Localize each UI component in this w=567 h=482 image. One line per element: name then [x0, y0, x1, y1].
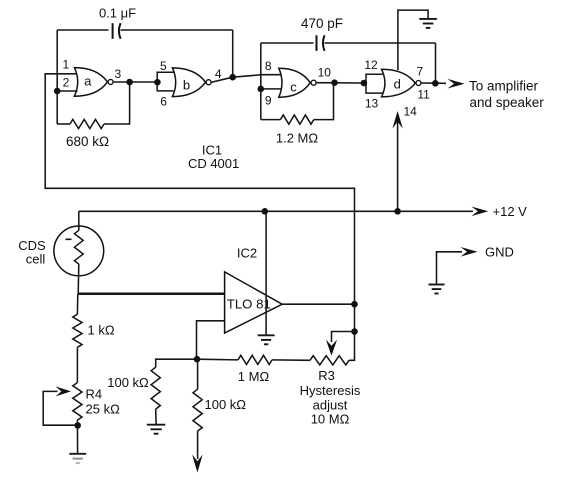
svg-text:680 kΩ: 680 kΩ — [66, 134, 109, 149]
wire: divider top lead — [76, 294, 78, 314]
arrow: to IC1 pin 14 — [392, 111, 402, 129]
wire: IC2 supply pins vertical — [265, 211, 267, 335]
junction: pin 10 node — [331, 79, 338, 86]
arrow: 100k to external connection — [192, 455, 203, 473]
svg-text:1.2 MΩ: 1.2 MΩ — [276, 130, 319, 145]
svg-text:470 pF: 470 pF — [301, 16, 343, 31]
resistor 1 MOhm — [238, 355, 272, 364]
ground: IC1 VSS — [419, 19, 437, 28]
svg-text:8: 8 — [265, 59, 272, 73]
wire: 680k left lead — [57, 123, 70, 125]
wire: R3 wiper — [332, 332, 355, 343]
wire: divider node to 1M left lead — [197, 358, 238, 361]
junction: +12V / pin 14 — [394, 208, 401, 215]
wire: pin 9 stub — [261, 88, 282, 90]
wire: 100k lower lead — [197, 431, 199, 459]
arrow: GND — [461, 247, 478, 257]
arrow: R4 wiper — [56, 386, 72, 396]
svg-text:and speaker: and speaker — [470, 95, 545, 110]
svg-text:b: b — [183, 78, 190, 93]
junction: IC2 output node — [351, 301, 358, 308]
wire: 1.2M right lead up to pin 10 — [314, 83, 334, 120]
svg-text:14: 14 — [404, 105, 418, 119]
svg-text:cell: cell — [26, 252, 46, 267]
wire: comparator output feedback to gate a pin 1 — [45, 74, 354, 304]
capacitor C2 470 pF — [317, 35, 325, 51]
svg-text:10: 10 — [318, 66, 332, 80]
wire: IC2 inverting input to divider node — [197, 321, 225, 359]
wire: CDS bottom lead — [77, 264, 80, 294]
svg-text:1 kΩ: 1 kΩ — [88, 323, 115, 338]
resistor 680 kOhm — [70, 119, 104, 128]
resistor 1.2 MOhm — [280, 115, 313, 124]
svg-text:100 kΩ: 100 kΩ — [205, 397, 247, 412]
wire: pin 2 stub — [57, 90, 77, 92]
ground: below 100k — [147, 425, 166, 434]
wire: 0.1uF loop top left segment — [57, 29, 108, 31]
svg-text:7: 7 — [416, 64, 423, 78]
wire: 1M right lead to R3 — [272, 359, 310, 361]
svg-text:10 MΩ: 10 MΩ — [311, 411, 350, 426]
wire: gate d input bracket pins 12/13 — [366, 74, 383, 93]
svg-text:9: 9 — [265, 93, 272, 107]
svg-text:To amplifier: To amplifier — [469, 78, 539, 93]
NOR gate c (IC1-c) — [279, 68, 310, 97]
wire: gate c output pin 10 to gate d input — [316, 82, 364, 84]
wire: R4 wiper return — [43, 391, 77, 425]
wire: GND symbol stub — [437, 252, 463, 285]
junction: pin 4 node (C1 right) — [229, 74, 236, 81]
wire: C1 right vertical to pin 4 node — [232, 30, 234, 77]
wire: IC2 output — [282, 303, 354, 305]
wire: IC1 pin 7 VSS to ground — [398, 10, 428, 70]
NOR gate b (IC1-b) — [172, 68, 205, 97]
svg-text:12: 12 — [364, 58, 378, 72]
svg-text:3: 3 — [115, 67, 122, 81]
potentiometer R3 10 MOhm body — [310, 356, 349, 365]
ground: IC2 V- pin — [258, 335, 275, 344]
NOR gate d (IC1-d) — [382, 69, 416, 97]
svg-text:1 MΩ: 1 MΩ — [238, 369, 270, 384]
svg-text:d: d — [394, 76, 401, 91]
gate c output bubble — [311, 80, 316, 85]
junction: +12V / IC2 supply — [262, 208, 269, 215]
junction: R4 wiper/bottom node — [74, 422, 81, 429]
svg-text:+12 V: +12 V — [493, 204, 528, 219]
svg-text:CD 4001: CD 4001 — [188, 156, 239, 171]
junction: gate b input node — [154, 79, 161, 86]
junction: pin 9 node — [258, 86, 265, 93]
junction: pin 3 output node — [126, 79, 133, 86]
svg-text:100 kΩ: 100 kΩ — [107, 375, 149, 390]
svg-text:R4: R4 — [86, 386, 103, 401]
svg-text:TLO 81: TLO 81 — [227, 296, 271, 311]
junction: R3 wiper node — [351, 328, 358, 335]
svg-text:4: 4 — [215, 67, 222, 81]
svg-text:adjust: adjust — [313, 398, 348, 413]
wire: 0.1uF loop top right segment — [121, 29, 233, 31]
wire: C2 left vertical / pin 9 node — [260, 43, 262, 120]
wire: gate b output pin 4 to gate c pin 8 — [211, 75, 280, 83]
wire: 680k right lead — [104, 82, 130, 124]
resistor 1 kOhm — [73, 314, 82, 347]
NOR gate a (IC1-a) — [74, 68, 107, 97]
svg-text:c: c — [290, 80, 297, 95]
arrow: R3 wiper — [326, 340, 337, 356]
wire: 1.2M left lead — [261, 119, 281, 121]
svg-text:a: a — [84, 74, 92, 89]
wire: 100k bottom lead to ground — [155, 409, 157, 424]
wire: R4 bottom to ground — [76, 420, 78, 454]
wire: C2 right vertical to output node — [435, 43, 437, 83]
wire: IC1 pin 14 supply arrow shaft — [397, 121, 399, 211]
resistor 100 kOhm (grounded) — [151, 367, 160, 409]
wire: 470pF loop top right segment — [325, 42, 436, 44]
arrow: +12 V — [471, 207, 488, 217]
photoresistor CDS cell — [54, 226, 104, 276]
gate a output bubble — [108, 79, 113, 84]
ground: below R4 — [69, 454, 86, 463]
junction: output node pin 11 — [432, 80, 439, 87]
svg-text:IC2: IC2 — [237, 246, 257, 261]
svg-text:Hysteresis: Hysteresis — [300, 383, 361, 398]
wire: gate d output pin 11 — [421, 82, 446, 84]
wire: gate a output to gate b input — [113, 81, 154, 83]
svg-text:GND: GND — [485, 244, 514, 259]
svg-text:0.1 μF: 0.1 μF — [99, 6, 136, 21]
wire: divider node to 100k (grounded) top — [156, 359, 197, 367]
svg-text:5: 5 — [160, 59, 167, 73]
gate d output bubble — [416, 81, 421, 86]
junction: pin 2 node — [54, 88, 61, 95]
wire: output node down to R3 right end — [349, 304, 355, 360]
svg-text:R3: R3 — [318, 368, 335, 383]
svg-text:1: 1 — [62, 57, 69, 71]
capacitor C1 0.1 uF — [113, 23, 121, 39]
potentiometer R4 25 kOhm body — [73, 383, 82, 421]
op-amp U2 TLO81 (IC2) — [225, 272, 283, 333]
svg-text:6: 6 — [160, 94, 167, 108]
junction: gate d input node — [361, 80, 368, 87]
svg-text:25 kΩ: 25 kΩ — [86, 402, 121, 417]
svg-text:2: 2 — [63, 75, 70, 89]
gate b output bubble — [206, 80, 211, 85]
wire: CDS top lead to +12V — [78, 211, 80, 230]
wire: C1 left / pin2 node vertical — [56, 30, 58, 124]
wire: divider node down to 100k — [197, 359, 199, 389]
wire: 1k to R4 — [76, 347, 78, 382]
junction: divider node — [194, 356, 201, 363]
resistor 100 kOhm (to external) — [193, 389, 202, 431]
wire: 470pF loop top left segment — [261, 42, 314, 44]
svg-text:13: 13 — [365, 97, 379, 111]
wire: gate b input bracket pins 5/6 — [157, 72, 173, 91]
ground: GND reference — [429, 285, 445, 294]
wire: +12 V rail — [79, 210, 473, 212]
svg-text:11: 11 — [417, 88, 430, 102]
wire: IC2 noninverting input from CDS divider — [78, 293, 224, 296]
arrow: output to amplifier — [448, 79, 465, 89]
